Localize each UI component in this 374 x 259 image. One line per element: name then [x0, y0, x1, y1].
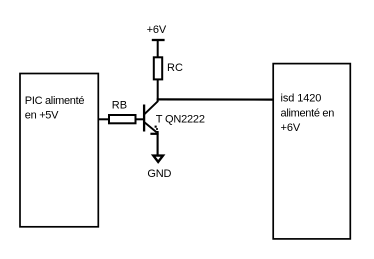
- svg-text:PIC alimenté: PIC alimenté: [25, 95, 85, 107]
- wire emitter to ground: [157, 131, 159, 156]
- svg-text:+6V: +6V: [281, 122, 301, 134]
- block PIC (left box): [20, 74, 98, 227]
- wire RC to collector node: [157, 79, 159, 101]
- emitter arrowhead: [150, 133, 158, 135]
- svg-text:GND: GND: [147, 168, 171, 180]
- svg-text:T QN2222: T QN2222: [156, 113, 205, 125]
- power rail +6V T-bar: [152, 39, 165, 41]
- emitter stroke: [144, 122, 156, 132]
- wire rail to RC: [157, 40, 159, 58]
- svg-text:alimenté en: alimenté en: [281, 107, 335, 119]
- svg-text:RC: RC: [167, 62, 183, 74]
- transistor Q1 T QN2222: [144, 101, 159, 134]
- svg-text:+6V: +6V: [147, 24, 167, 36]
- svg-text:en +5V: en +5V: [25, 109, 59, 121]
- wire PIC to RB: [98, 118, 110, 120]
- block isd 1420 (right box): [273, 64, 350, 239]
- svg-text:RB: RB: [112, 99, 127, 111]
- collector stroke: [144, 101, 158, 114]
- resistor RB: [109, 115, 136, 123]
- base bar: [143, 105, 145, 132]
- ground symbol: [153, 156, 163, 162]
- wire RB to base: [136, 118, 145, 120]
- resistor RC: [154, 57, 162, 79]
- svg-text:isd 1420: isd 1420: [281, 93, 322, 105]
- wire collector node to isd box: [157, 98, 274, 100]
